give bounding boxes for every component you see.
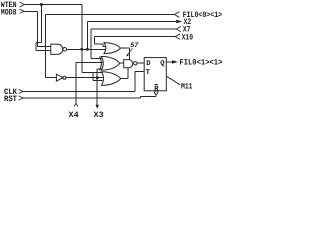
- input RST arrow symbol: [19, 96, 24, 100]
- svg-text:X3: X3: [94, 111, 104, 120]
- and-gate D with output bubble (net 57 driver): [124, 60, 133, 68]
- wire RST to flip-flop R bubble: [23, 94, 156, 98]
- input WTEN arrow symbol: [20, 2, 25, 7]
- label X7: [183, 26, 191, 35]
- flip-flop pin label Q: [160, 60, 165, 68]
- svg-text:FIL0<1><1>: FIL0<1><1>: [179, 59, 222, 68]
- wire CLK to flip-flop T input: [23, 71, 144, 91]
- arrowhead X4 (open caret up): [74, 103, 78, 106]
- inverter U2 bubble: [63, 76, 66, 79]
- NAND U1 output bubble: [63, 48, 67, 52]
- flip-flop M11 box: [144, 58, 166, 91]
- wire gate D output to flip-flop D input: [137, 62, 144, 64]
- label X2: [184, 18, 192, 27]
- output arrow X10: [175, 34, 180, 40]
- svg-text:RST: RST: [4, 95, 17, 104]
- svg-text:Q: Q: [160, 60, 165, 68]
- wire NAND output to gate A lower input: [67, 48, 106, 50]
- inverter U2: [56, 74, 63, 81]
- or-gate A (top): [104, 43, 121, 54]
- wire X3 vertical up to gate B lower input: [97, 69, 102, 78]
- NAND gate U1: [51, 44, 63, 54]
- label X4: [69, 111, 79, 120]
- gate D output bubble: [134, 62, 137, 65]
- flip-flop pin label D: [146, 60, 151, 68]
- wire gate B middle input / X4 tap: [76, 62, 103, 103]
- output arrow FIL0<0><1>: [174, 12, 179, 18]
- input WTEN label: [1, 1, 17, 10]
- xor-gate B extra input arc: [99, 56, 101, 70]
- xor-gate B (middle): [101, 56, 120, 70]
- label M11: [181, 83, 193, 92]
- net X2 wire up and right: [87, 22, 176, 50]
- output arrow X2 (filled): [176, 20, 182, 23]
- wire WTEN branch down to NAND lower input: [36, 5, 51, 51]
- label FIL0<0><1>: [183, 11, 223, 20]
- svg-text:R: R: [154, 85, 159, 93]
- output arrow X7: [176, 26, 181, 32]
- wire gate B output to gate D left edge: [120, 62, 124, 64]
- wire inverter output to gate C middle input: [66, 77, 104, 79]
- junction dot on WTEN at x=41: [40, 3, 43, 6]
- flip-flop pin label R with overbar: [154, 85, 159, 93]
- input MOD8 arrow symbol: [20, 9, 25, 13]
- input RST label: [4, 95, 17, 104]
- input CLK label: [4, 88, 17, 97]
- net FIL0<0><1> wire (horizontal to output, vertical down to inverter): [46, 15, 175, 78]
- junction dot inverter output / X3 branch: [96, 76, 99, 79]
- label 57 with leader arrow pointing at net: [130, 42, 139, 50]
- wire MOD8 to NAND upper input: [24, 11, 51, 46]
- wire branch down to gate C lower input: [93, 72, 102, 80]
- arrowhead X3 (down): [96, 105, 99, 109]
- wire gate A output to gate D top edge: [121, 48, 130, 60]
- wire gate C output to gate D bottom edge: [121, 68, 128, 79]
- svg-text:M11: M11: [181, 83, 193, 92]
- label FIL0<1><1>: [179, 59, 222, 68]
- leader line to M11 name: [166, 76, 180, 85]
- svg-text:T: T: [146, 69, 151, 77]
- wire WTEN vertical right branch down: [81, 5, 83, 73]
- wire Q output: [166, 61, 172, 63]
- svg-text:D: D: [146, 60, 151, 68]
- net X7 wire down to gate B upper input and right: [91, 29, 177, 59]
- svg-text:X10: X10: [182, 33, 194, 42]
- or-gate C (bottom): [102, 72, 121, 86]
- flip-flop reset bubble below box: [155, 91, 158, 94]
- net X10 wire jog down to gate A upper input and right: [95, 37, 176, 47]
- label X10: [182, 33, 194, 42]
- svg-text:MOD8: MOD8: [1, 8, 17, 17]
- svg-text:X4: X4: [69, 111, 79, 120]
- flip-flop pin label T: [146, 69, 151, 77]
- junction dot WTEN vertical crossing NAND output: [80, 48, 83, 51]
- wire X3 vertical down: [96, 78, 98, 106]
- junction dot NAND output / X2 branch: [86, 48, 89, 51]
- input MOD8 label: [1, 8, 17, 17]
- wire WTEN horizontal: [24, 4, 82, 6]
- label X3: [94, 111, 104, 120]
- wire WTEN jog to gate C top input: [82, 71, 103, 73]
- output arrow FIL0<1><1> (filled): [172, 60, 178, 63]
- input CLK arrow symbol: [19, 89, 24, 93]
